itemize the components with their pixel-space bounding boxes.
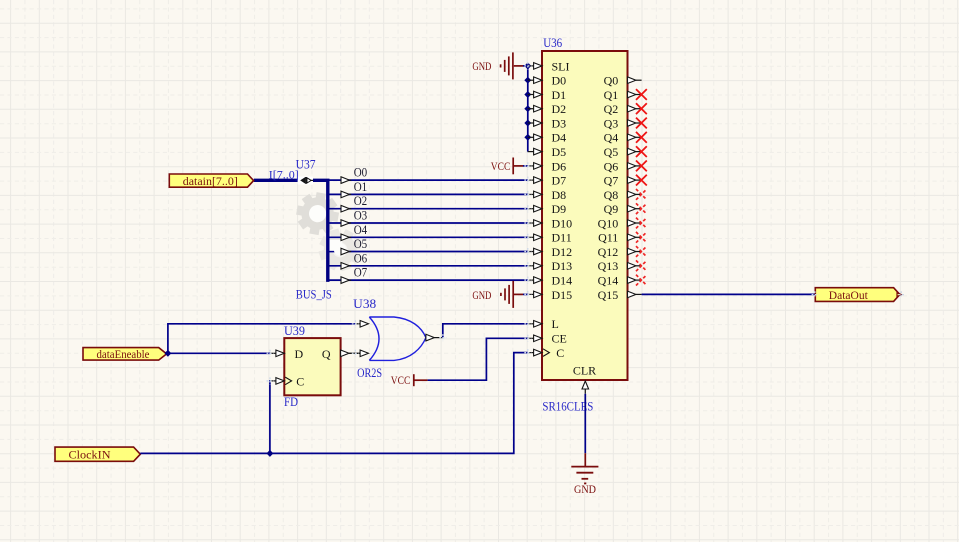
svg-text:CE: CE — [552, 332, 567, 346]
svg-text:D11: D11 — [552, 231, 572, 245]
power GND (to U36 SLI) — [472, 52, 527, 79]
U36 pin Q5 — [604, 145, 642, 159]
U36 pin Q4 — [604, 131, 642, 145]
U36 pin Q0 — [604, 74, 642, 88]
svg-text:Q0: Q0 — [604, 74, 619, 88]
bus ripper pin O7 — [341, 266, 367, 284]
svg-text:Q10: Q10 — [598, 216, 619, 230]
no-ERC marker on Q6 — [636, 161, 647, 172]
wire ClockIN to U36 C — [140, 353, 528, 454]
bus wire datain[7..0] — [254, 180, 328, 282]
junction at D row — [525, 63, 531, 69]
svg-text:U36: U36 — [543, 36, 562, 50]
bus ripper pin O2 — [341, 194, 367, 212]
svg-text:D12: D12 — [552, 245, 573, 259]
no-ERC marker on Q1 — [636, 89, 647, 100]
no-ERC marker on Q4 — [636, 132, 647, 143]
svg-text:D7: D7 — [552, 174, 567, 188]
svg-text:U38: U38 — [353, 297, 376, 311]
no-ERC marker on Q13 (dashed) — [636, 260, 647, 271]
junction at D0 row — [525, 77, 531, 83]
or-gate U38 body — [369, 317, 426, 360]
wire VCC to U36 CE — [428, 338, 528, 380]
U36 pin SLI — [528, 59, 570, 73]
power VCC (to U36 CE) — [391, 374, 428, 387]
wire GND chain SLI-D5 — [527, 66, 529, 152]
power VCC (to U36 D6) — [491, 158, 528, 175]
U36 pin D13 — [528, 259, 572, 273]
svg-text:O7: O7 — [354, 266, 368, 280]
svg-text:O2: O2 — [354, 194, 368, 208]
no-ERC marker on Q3 — [636, 118, 647, 129]
label U38 — [353, 297, 376, 311]
U36 pin Q15 — [598, 288, 642, 302]
bus ripper pin O0 — [341, 166, 367, 184]
no-ERC marker on Q5 — [636, 146, 647, 157]
svg-text:I[7..0]: I[7..0] — [269, 168, 299, 182]
svg-text:D0: D0 — [552, 74, 567, 88]
svg-text:Q6: Q6 — [604, 159, 619, 173]
U36 pin Q3 — [604, 116, 642, 130]
U36 pin D6 — [528, 159, 566, 173]
U36 pin C (clock) — [528, 346, 565, 360]
U36 pin D8 — [528, 188, 566, 202]
U36 pin Q10 — [598, 216, 642, 230]
svg-text:GND: GND — [472, 290, 491, 302]
svg-text:C: C — [296, 375, 304, 389]
wire O5 (bus ripper to U36 D12) — [328, 251, 527, 253]
wire O0 (bus ripper to U36 D7) — [328, 179, 527, 181]
svg-text:datain[7..0]: datain[7..0] — [183, 174, 238, 188]
no-ERC marker on Q11 (dashed) — [636, 232, 647, 243]
svg-text:Q7: Q7 — [604, 174, 619, 188]
svg-text:D5: D5 — [552, 145, 567, 159]
svg-text:Q3: Q3 — [604, 116, 619, 130]
svg-text:D: D — [295, 347, 304, 361]
svg-text:Q11: Q11 — [598, 231, 618, 245]
svg-text:GND: GND — [472, 61, 491, 73]
wire U38 output to U36 L — [443, 324, 528, 338]
svg-text:D13: D13 — [552, 259, 573, 273]
svg-text:O5: O5 — [354, 237, 368, 251]
svg-text:D2: D2 — [552, 102, 567, 116]
wire ClockIN branch to U39 C — [269, 381, 272, 454]
U36 pin Q13 — [598, 259, 642, 273]
U36 pin Q11 — [598, 231, 642, 245]
svg-text:dataEneable: dataEneable — [97, 347, 150, 361]
bus ripper pin O3 — [341, 209, 367, 227]
wire FD Q to U38 input — [350, 352, 361, 354]
port dataEneable — [83, 347, 167, 361]
label OR2S — [357, 366, 382, 380]
svg-text:D3: D3 — [552, 116, 567, 130]
U36 pin Q2 — [604, 102, 642, 116]
U36 pin Q6 — [604, 159, 642, 173]
U36 pin Q1 — [604, 88, 642, 102]
wire O7 (bus ripper to U36 D14) — [328, 279, 527, 281]
label FD — [284, 395, 298, 409]
junction ClockIN — [267, 451, 273, 457]
wire O2 (bus ripper to U36 D9) — [328, 208, 527, 210]
svg-text:Q4: Q4 — [604, 131, 619, 145]
no-ERC marker on Q12 (dashed) — [636, 246, 647, 257]
svg-text:Q13: Q13 — [598, 259, 619, 273]
U36 pin Q12 — [598, 245, 642, 259]
power GND (bottom) — [571, 467, 598, 496]
svg-text:D10: D10 — [552, 216, 573, 230]
U36 pin D11 — [528, 231, 572, 245]
svg-text:Q1: Q1 — [604, 88, 619, 102]
junction at D3 row — [525, 120, 531, 126]
svg-text:ClockIN: ClockIN — [69, 448, 111, 462]
U36 pin D4 — [528, 131, 566, 145]
wire O4 (bus ripper to U36 D11) — [328, 236, 527, 238]
shift register U36 body — [542, 51, 628, 380]
svg-text:U39: U39 — [284, 324, 305, 338]
svg-text:O3: O3 — [354, 209, 368, 223]
svg-text:Q2: Q2 — [604, 102, 619, 116]
U36 pin D1 — [528, 88, 566, 102]
svg-text:O4: O4 — [354, 223, 368, 237]
svg-text:Q9: Q9 — [604, 202, 619, 216]
svg-text:U37: U37 — [296, 158, 316, 172]
svg-text:FD: FD — [284, 395, 298, 409]
svg-text:Q8: Q8 — [604, 188, 619, 202]
svg-text:D1: D1 — [552, 88, 567, 102]
power GND (to U36 D15) — [472, 281, 527, 308]
U39 pin C (clock) — [270, 375, 304, 389]
svg-text:D9: D9 — [552, 202, 567, 216]
U36 pin CE — [528, 332, 567, 346]
U36 pin D14 — [528, 274, 572, 288]
svg-text:O6: O6 — [354, 251, 368, 265]
svg-text:Q15: Q15 — [598, 288, 619, 302]
U39 pin D — [270, 347, 304, 361]
svg-text:O0: O0 — [354, 166, 368, 180]
U36 pin Q9 — [604, 202, 642, 216]
svg-text:Q12: Q12 — [598, 245, 619, 259]
wire O3 (bus ripper to U36 D10) — [328, 222, 527, 224]
svg-text:O1: O1 — [354, 180, 368, 194]
svg-text:CLR: CLR — [573, 364, 596, 378]
no-ERC marker on Q2 — [636, 103, 647, 114]
wire dataEneable branch to U38 input — [168, 324, 355, 354]
U36 pin L — [528, 317, 559, 331]
no-ERC marker on Q10 (dashed) — [636, 218, 647, 229]
port DataOut — [812, 288, 905, 302]
port datain[7..0] — [169, 174, 253, 188]
bus ripper pin O6 — [341, 251, 367, 269]
label BUS_JS — [296, 288, 332, 302]
U36 pin D2 — [528, 102, 566, 116]
flip-flop U39 body — [284, 338, 340, 395]
U36 pin D5 — [528, 145, 566, 159]
svg-text:OR2S: OR2S — [357, 366, 382, 380]
U36 pin CLR — [573, 364, 596, 394]
junction at D1 row — [525, 92, 531, 98]
label U37 — [296, 158, 316, 172]
junction at D2 row — [525, 106, 531, 112]
svg-text:GND: GND — [574, 484, 596, 496]
label U36 — [543, 36, 562, 50]
wire Q15 to DataOut — [642, 293, 816, 295]
no-ERC marker on Q7 — [636, 175, 647, 186]
port ClockIN — [55, 447, 140, 461]
U36 pin Q7 — [604, 174, 642, 188]
U36 pin D7 — [528, 174, 566, 188]
wire U36 CLR to GND — [584, 394, 586, 467]
no-ERC marker on Q14 (dashed) — [636, 275, 647, 286]
wire O6 (bus ripper to U36 D13) — [328, 265, 527, 267]
bus ripper pin O4 — [341, 223, 367, 241]
label SR16CLES — [542, 399, 593, 413]
U36 pin D0 — [528, 74, 566, 88]
U39 pin Q — [322, 347, 355, 361]
bus ripper pin O1 — [341, 180, 367, 198]
U38 input pin 1 — [355, 321, 368, 328]
svg-text:D6: D6 — [552, 159, 567, 173]
svg-text:D14: D14 — [552, 274, 573, 288]
wire dataEneable to U39 D — [168, 352, 270, 354]
wire O1 (bus ripper to U36 D8) — [328, 193, 527, 195]
svg-text:VCC: VCC — [391, 375, 411, 387]
svg-text:Q: Q — [322, 347, 331, 361]
U38 output pin — [426, 334, 443, 341]
U36 pin D10 — [528, 216, 572, 230]
no-ERC marker on Q9 (dashed) — [636, 203, 647, 214]
U38 input pin 2 — [355, 350, 368, 357]
U36 pin D3 — [528, 116, 566, 130]
bus ripper pin O5 — [341, 237, 367, 255]
svg-text:BUS_JS: BUS_JS — [296, 288, 332, 302]
svg-text:C: C — [556, 346, 564, 360]
svg-text:D8: D8 — [552, 188, 567, 202]
svg-text:SLI: SLI — [552, 59, 570, 73]
U36 pin D12 — [528, 245, 572, 259]
U36 pin Q8 — [604, 188, 642, 202]
svg-text:VCC: VCC — [491, 161, 511, 173]
junction dataEneable — [165, 350, 171, 356]
bus ripper U37 pin I[7..0] — [298, 177, 314, 185]
U36 pin D15 — [528, 288, 572, 302]
U36 pin Q14 — [598, 274, 642, 288]
label U39 — [284, 324, 305, 338]
svg-text:Q14: Q14 — [598, 274, 619, 288]
svg-text:Q5: Q5 — [604, 145, 619, 159]
svg-text:D15: D15 — [552, 288, 573, 302]
no-ERC marker on Q8 (dashed) — [636, 189, 647, 200]
svg-text:D4: D4 — [552, 131, 567, 145]
svg-text:DataOut: DataOut — [829, 288, 869, 302]
svg-text:L: L — [552, 317, 559, 331]
U36 pin D9 — [528, 202, 566, 216]
junction at D4 row — [525, 134, 531, 140]
label I[7..0] — [269, 168, 299, 182]
